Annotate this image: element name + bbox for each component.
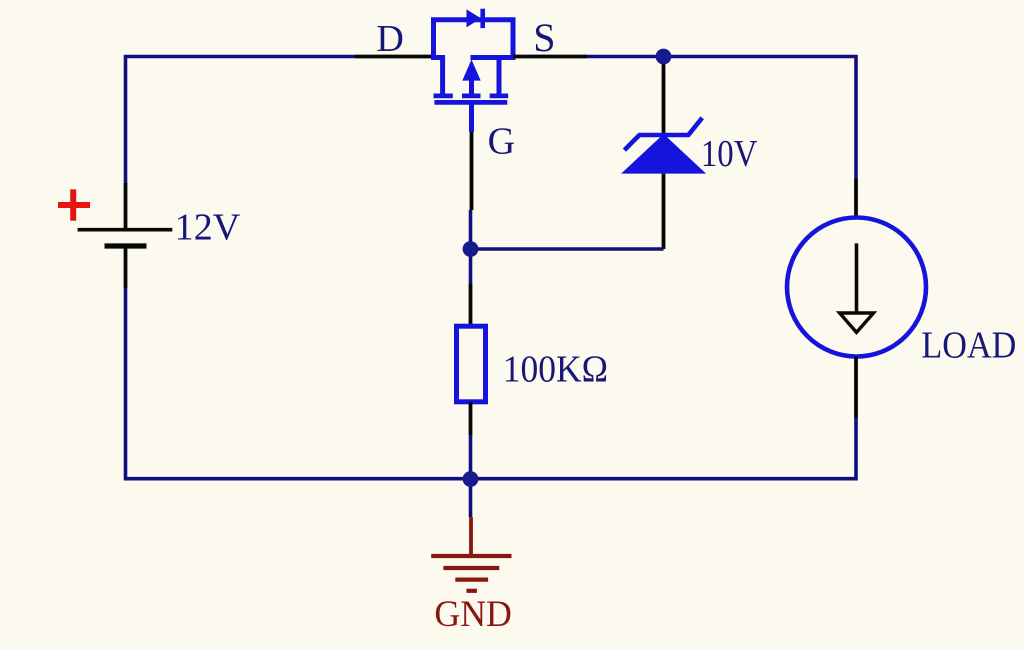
svg-text:G: G — [488, 121, 515, 163]
MOSFET source right leg — [497, 58, 502, 99]
MOSFET body diode cathode bar — [480, 9, 485, 28]
wire: zener anode lead (black) — [662, 174, 666, 249]
zener cathode bar with bent ends — [624, 118, 702, 150]
wire: bottom rail right section (navy) — [471, 418, 857, 479]
wire: zener to gate node (navy) — [471, 247, 664, 251]
MOSFET body-diode loop wire — [434, 20, 514, 60]
svg-text:D: D — [376, 18, 403, 60]
svg-text:LOAD: LOAD — [921, 324, 1016, 366]
junction node: bottom rail / ground — [463, 471, 479, 487]
wire: load top lead (black) — [854, 179, 858, 218]
wire: drain lead segment (black) — [355, 55, 433, 59]
wire: resistor to bottom rail (navy) — [469, 435, 473, 479]
current source arrow head (open triangle) — [840, 313, 874, 332]
MOSFET body diode triangle — [467, 9, 482, 27]
svg-text:S: S — [533, 15, 555, 60]
MOSFET source step — [471, 55, 514, 60]
wire: ground lead (navy) — [469, 479, 473, 517]
wire: resistor bottom lead (black) — [469, 402, 473, 435]
ground bar 2 — [443, 566, 499, 570]
MOSFET arrow shaft — [469, 79, 474, 98]
MOSFET channel dash right — [490, 94, 509, 99]
ground bar 4 — [466, 589, 477, 593]
wire: resistor top lead (black) — [469, 284, 473, 327]
MOSFET drain step and left leg — [431, 58, 443, 99]
junction node: gate / zener / resistor — [463, 241, 479, 257]
MOSFET gate plate — [434, 100, 507, 105]
svg-text:12V: 12V — [175, 206, 241, 248]
ground bar 1 — [431, 554, 511, 558]
resistor R1 body — [457, 326, 486, 402]
wire: battery positive pin stub (black) — [124, 183, 128, 228]
battery plus polarity mark — [58, 189, 90, 220]
current source arrow shaft — [855, 243, 859, 313]
wire: source lead segment (black) — [513, 55, 587, 59]
wire: top-right rail to load (navy) — [587, 57, 856, 180]
MOSFET Q1 (N-channel with body diode) — [431, 9, 513, 132]
svg-text:10V: 10V — [701, 133, 758, 175]
ground bar 3 — [455, 577, 488, 581]
zener diode D1 — [621, 118, 706, 174]
MOSFET gate pin stub — [469, 105, 474, 133]
ground symbol GND — [431, 517, 511, 591]
junction node: source / zener / load (top) — [656, 49, 672, 65]
MOSFET channel dash left — [434, 94, 453, 99]
current source LOAD circle — [787, 218, 926, 357]
zener anode triangle — [621, 134, 706, 174]
MOSFET channel dash middle — [462, 94, 481, 99]
wire: top-left rail from battery + up and right toward MOSFET drain (navy) — [126, 57, 356, 185]
wire: battery negative pin stub (black) — [124, 247, 128, 288]
wire: load bottom lead (black) — [854, 357, 858, 418]
ground lead (dark red) — [469, 517, 473, 556]
battery V1 negative plate — [105, 243, 147, 248]
wire: bottom-left rail (navy) — [126, 288, 471, 479]
svg-text:100KΩ: 100KΩ — [503, 348, 608, 390]
wire: zener cathode lead (black) — [662, 58, 666, 135]
MOSFET arrow head (substrate arrow) — [462, 60, 480, 81]
wire: gate node vertical (navy) — [469, 210, 473, 284]
svg-text:GND: GND — [434, 594, 512, 635]
wire: gate lead upper segment (black) — [470, 132, 474, 210]
battery V1 positive plate — [78, 228, 173, 232]
